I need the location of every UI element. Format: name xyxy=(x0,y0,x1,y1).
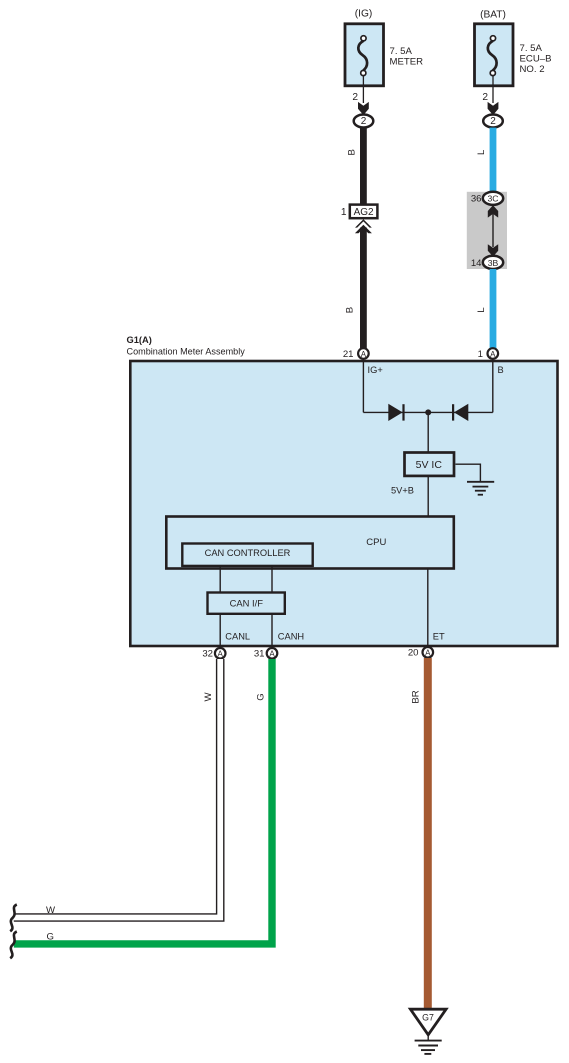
svg-text:1: 1 xyxy=(341,207,347,218)
break squiggle (G wire) xyxy=(10,932,17,959)
wire G (green, CANH) xyxy=(14,659,272,944)
svg-text:A: A xyxy=(218,650,224,659)
combination meter assembly box G1(A) xyxy=(130,361,557,646)
svg-text:METER: METER xyxy=(390,56,424,67)
svg-text:3B: 3B xyxy=(488,258,499,268)
svg-text:21: 21 xyxy=(343,349,354,360)
CAN CONTROLLER block xyxy=(182,544,312,566)
svg-text:32: 32 xyxy=(202,649,213,660)
fuse F2 (BAT) 7.5A ECU-B NO.2 xyxy=(475,24,514,86)
svg-text:L: L xyxy=(476,307,487,313)
svg-text:W: W xyxy=(203,692,214,702)
svg-text:AG2: AG2 xyxy=(354,207,374,218)
svg-text:3C: 3C xyxy=(488,194,499,204)
wire inside junction block xyxy=(492,214,494,247)
svg-text:A: A xyxy=(425,649,431,658)
arrow up (to 3C) xyxy=(488,205,498,217)
wire CAN controller to CAN I/F (right) xyxy=(271,566,273,593)
wire ET inside xyxy=(427,569,429,648)
svg-text:2: 2 xyxy=(490,116,496,127)
wire from pin 1 down xyxy=(492,359,494,412)
svg-text:7. 5A: 7. 5A xyxy=(390,46,413,57)
wire 5V IC to CPU (5V+B) xyxy=(427,477,429,517)
wire junction to 5V IC xyxy=(427,412,429,452)
svg-text:CAN CONTROLLER: CAN CONTROLLER xyxy=(205,548,291,558)
svg-text:5V IC: 5V IC xyxy=(416,459,443,471)
svg-text:20: 20 xyxy=(408,648,419,659)
regulator 5V IC U1 xyxy=(405,453,455,476)
svg-text:CPU: CPU xyxy=(366,537,386,548)
wire from pin 21 down xyxy=(362,359,364,412)
wire BR (brown, ET) xyxy=(424,658,432,1009)
connector oval 2 (IG side) xyxy=(354,115,374,128)
fuse F1 (IG) 7.5A METER xyxy=(345,24,384,86)
wire CAN controller to CAN I/F (left) xyxy=(219,566,221,593)
svg-text:2: 2 xyxy=(482,92,488,103)
svg-text:B: B xyxy=(498,365,504,375)
svg-text:ECU–B: ECU–B xyxy=(520,53,552,64)
arrow down (BAT) xyxy=(488,102,499,115)
svg-text:A: A xyxy=(490,350,496,359)
diode D2 (right, anode from B) xyxy=(453,404,468,421)
svg-text:NO. 2: NO. 2 xyxy=(520,64,545,75)
wire L lower (light blue) xyxy=(490,269,497,349)
svg-text:CANH: CANH xyxy=(278,631,304,641)
node junction dot xyxy=(425,409,431,415)
wire from fuse BAT pin 2 xyxy=(492,75,494,103)
svg-text:Combination Meter Assembly: Combination Meter Assembly xyxy=(127,347,246,357)
connector oval 3B xyxy=(483,256,503,269)
ground G7 xyxy=(410,1009,446,1054)
arrow up (AG2) xyxy=(355,225,372,234)
CAN I/F block xyxy=(208,593,285,614)
svg-text:(BAT): (BAT) xyxy=(480,10,506,21)
chevron above arrow (AG2) xyxy=(355,219,372,227)
arrow down (to 3B) xyxy=(488,244,498,256)
svg-text:ET: ET xyxy=(433,631,445,641)
break squiggle (W wire) xyxy=(10,905,17,932)
wire from fuse IG pin 2 xyxy=(362,75,364,103)
svg-text:1: 1 xyxy=(478,349,483,360)
connector AG2 xyxy=(350,205,378,219)
svg-text:A: A xyxy=(361,350,367,359)
wire B upper (black) xyxy=(360,128,367,205)
arrow down (IG) xyxy=(358,102,369,115)
wire CANL inside xyxy=(219,614,221,647)
svg-text:BR: BR xyxy=(411,690,422,703)
connector oval 3C xyxy=(483,192,503,205)
svg-text:2: 2 xyxy=(361,116,367,127)
svg-text:5V+B: 5V+B xyxy=(391,486,414,496)
CPU U2 xyxy=(166,517,454,569)
svg-text:CAN I/F: CAN I/F xyxy=(230,598,264,609)
wire 5V IC to internal ground xyxy=(456,464,481,481)
svg-text:B: B xyxy=(347,149,358,155)
svg-text:W: W xyxy=(46,905,56,916)
wire W (white, CANL) xyxy=(14,659,220,918)
svg-text:B: B xyxy=(345,307,356,313)
svg-text:CANL: CANL xyxy=(225,631,250,641)
svg-text:A: A xyxy=(269,650,275,659)
connector oval 2 (BAT side) xyxy=(483,115,503,128)
svg-text:IG+: IG+ xyxy=(368,365,383,375)
svg-text:(IG): (IG) xyxy=(355,8,373,19)
svg-text:7. 5A: 7. 5A xyxy=(520,43,543,54)
wire diode bus horizontal xyxy=(363,411,492,413)
svg-text:G7: G7 xyxy=(422,1013,434,1023)
wire L upper (light blue) xyxy=(490,128,497,193)
svg-text:14: 14 xyxy=(471,258,482,269)
junction block J (gray) xyxy=(467,192,507,269)
svg-text:2: 2 xyxy=(352,92,358,103)
svg-text:G: G xyxy=(47,931,54,942)
svg-text:L: L xyxy=(476,149,487,155)
svg-text:G: G xyxy=(256,693,267,700)
svg-text:36: 36 xyxy=(471,194,482,205)
ground (internal, chassis) xyxy=(467,482,494,495)
wire B lower (black) xyxy=(360,228,367,349)
diode D1 (left, anode from IG+) xyxy=(388,404,403,421)
wire CANH inside xyxy=(271,614,273,647)
svg-text:31: 31 xyxy=(254,649,265,660)
svg-text:G1(A): G1(A) xyxy=(127,335,152,345)
